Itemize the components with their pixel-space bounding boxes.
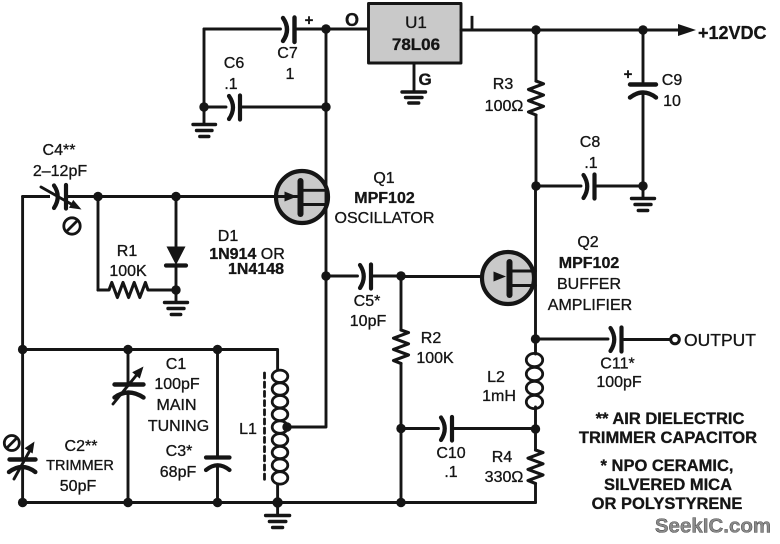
wire: Q1 gate line: [23, 195, 297, 198]
wire: Q2 drain vertical from R3 node: [534, 186, 537, 339]
svg-text:C1: C1: [166, 356, 187, 373]
node: gate line / D1 branch: [171, 192, 180, 201]
svg-text:MPF102: MPF102: [354, 190, 415, 207]
node: bus L1/ground: [272, 497, 282, 507]
svg-text:C11*: C11*: [600, 356, 634, 373]
output terminal: [671, 335, 680, 344]
svg-text:100Ω: 100Ω: [485, 98, 524, 115]
inductor L1: [239, 370, 288, 502]
svg-text:** AIR DIELECTRIC: ** AIR DIELECTRIC: [596, 410, 745, 428]
svg-text:R3: R3: [493, 76, 514, 93]
node: bus left: [18, 498, 27, 507]
svg-text:50pF: 50pF: [60, 478, 97, 495]
node: tank bus left: [18, 345, 27, 354]
capacitor C3: [160, 350, 230, 503]
node: tank bus C1: [123, 345, 132, 354]
svg-text:G: G: [419, 70, 432, 89]
node: C6 right on main vertical: [321, 102, 330, 111]
node: bus R2: [396, 498, 405, 507]
resistor R1: [98, 197, 176, 298]
svg-text:100pF: 100pF: [154, 376, 200, 393]
capacitor C9: [624, 30, 683, 186]
node: C9 top: [638, 25, 647, 34]
screw adjust symbol for C2: [4, 436, 19, 451]
svg-text:1: 1: [286, 66, 295, 83]
svg-text:SILVERED MICA: SILVERED MICA: [604, 476, 732, 494]
wire: output line: [536, 338, 609, 341]
svg-text:C8: C8: [580, 134, 601, 151]
capacitor C8: [580, 134, 601, 199]
svg-text:Q1: Q1: [373, 170, 394, 187]
svg-text:SeekIC.com: SeekIC.com: [655, 515, 771, 538]
svg-text:78L06: 78L06: [392, 35, 440, 54]
svg-text:C5*: C5*: [354, 293, 381, 310]
svg-text:68pF: 68pF: [160, 464, 197, 481]
node: tank bus C3: [213, 345, 222, 354]
node: bus C3: [213, 498, 222, 507]
capacitor C7: [277, 12, 313, 83]
svg-text:R4: R4: [492, 449, 513, 466]
pin G stub: [413, 63, 416, 91]
svg-text:D1: D1: [218, 228, 239, 245]
svg-text:C9: C9: [662, 72, 683, 89]
wire: C6 right to main vertical: [243, 106, 327, 109]
node: C6 left: [199, 102, 208, 111]
svg-text:100K: 100K: [109, 263, 147, 280]
capacitor C10: [401, 417, 536, 481]
node: Q1 source / C5 junction: [321, 271, 330, 280]
svg-text:10pF: 10pF: [350, 313, 387, 330]
wire: C7 to U1 input: [297, 28, 368, 31]
wire: C11 to output terminal: [624, 338, 670, 341]
capacitor C11: [596, 328, 642, 392]
node: C7/main vertical junction: [321, 24, 330, 33]
svg-text:330Ω: 330Ω: [485, 469, 524, 486]
wire: Q1 source down to L1 tap: [287, 276, 326, 427]
svg-text:2–12pF: 2–12pF: [33, 163, 87, 180]
svg-text:.1: .1: [224, 76, 237, 93]
svg-text:TRIMMER CAPACITOR: TRIMMER CAPACITOR: [579, 429, 757, 447]
node: C5 right / R2 top: [396, 271, 405, 280]
node: R2 / C10 left junction: [396, 424, 405, 433]
node: R3 bottom / C8 left: [531, 181, 540, 190]
svg-text:+12VDC: +12VDC: [698, 23, 767, 43]
wire: C8 right: [597, 185, 643, 188]
ground under C6 left node: [193, 107, 216, 137]
svg-text:R1: R1: [117, 243, 138, 260]
wire: main vertical from top rail through Q1 to C5: [325, 29, 328, 276]
L1 core dashed line: [263, 373, 266, 483]
node: R1/D1 bottom junction: [171, 285, 180, 294]
svg-text:+: +: [624, 66, 633, 83]
wire: tank top bus: [23, 350, 278, 371]
svg-text:10: 10: [663, 93, 681, 110]
wire: U1 output to +12VDC: [461, 29, 682, 32]
svg-text:1N4148: 1N4148: [228, 261, 284, 278]
ground under U1 G pin: [402, 92, 426, 103]
svg-text:C6: C6: [224, 55, 245, 72]
svg-text:MAIN: MAIN: [157, 397, 197, 414]
regulator U1 78L06: [369, 4, 462, 64]
node: bus C1: [123, 498, 132, 507]
svg-text:1mH: 1mH: [482, 388, 516, 405]
wire: top-left horizontal (C6/C7 top rail): [204, 28, 281, 31]
svg-text:C7: C7: [277, 45, 298, 62]
ground under R1/D1: [165, 290, 188, 315]
node: L2 bottom / C10 right: [531, 424, 540, 433]
svg-text:Q2: Q2: [577, 234, 598, 251]
svg-text:O: O: [345, 10, 359, 30]
svg-text:TRIMMER: TRIMMER: [46, 458, 114, 474]
svg-text:TUNING: TUNING: [148, 418, 209, 435]
svg-text:C3*: C3*: [166, 443, 193, 460]
capacitor C5: [326, 265, 401, 331]
capacitor C6: [224, 55, 245, 120]
transistor Q1 MPF102 (JFET): [276, 171, 328, 223]
wire: left vertical branch (C2): [21, 197, 24, 459]
svg-text:+: +: [305, 12, 314, 29]
svg-text:BUFFER: BUFFER: [557, 276, 621, 293]
wire: C6 left stub: [204, 106, 226, 109]
screw adjust symbol for C4: [64, 218, 80, 234]
wire: R2 branch to bottom bus: [400, 429, 403, 503]
wire: Q2 gate line: [401, 275, 506, 278]
node: C9 bottom / C8 right: [638, 181, 647, 190]
arrowhead +12VDC: [678, 24, 696, 36]
capacitor C2 (trimmer, variable): [9, 438, 114, 503]
svg-text:100pF: 100pF: [596, 374, 642, 391]
node: gate line / R1 branch: [93, 192, 102, 201]
resistor R4: [485, 429, 543, 503]
transistor Q2 MPF102 (JFET): [482, 252, 536, 304]
svg-text:MPF102: MPF102: [559, 255, 620, 272]
svg-text:100K: 100K: [416, 350, 454, 367]
capacitor C1 (main tuning, variable): [113, 350, 209, 503]
svg-text:.1: .1: [444, 464, 457, 481]
resistor R3: [485, 30, 544, 186]
svg-text:L1: L1: [239, 421, 257, 438]
inductor L2: [482, 339, 543, 429]
wire: left vertical C6 branch: [203, 29, 206, 107]
resistor R2: [394, 276, 455, 429]
svg-text:OR POLYSTYRENE: OR POLYSTYRENE: [592, 495, 743, 513]
ground under L1 / bottom bus: [266, 503, 290, 528]
svg-text:C10: C10: [436, 445, 465, 462]
node: L1 tap: [282, 422, 291, 431]
svg-text:L2: L2: [487, 369, 505, 386]
svg-text:OUTPUT: OUTPUT: [684, 330, 756, 350]
svg-text:C4**: C4**: [43, 142, 76, 159]
svg-text:AMPLIFIER: AMPLIFIER: [548, 297, 632, 314]
wire: C8 left: [536, 185, 581, 188]
svg-text:C2**: C2**: [65, 438, 98, 455]
capacitor C4 (air trimmer): [33, 142, 87, 210]
svg-text:OSCILLATOR: OSCILLATOR: [335, 210, 435, 227]
node: R3 top: [531, 25, 540, 34]
svg-text:R2: R2: [421, 330, 442, 347]
node: Q2 source / output junction: [531, 334, 540, 343]
svg-text:U1: U1: [405, 13, 427, 32]
ground under C8/C9 junction: [632, 186, 655, 211]
svg-text:.1: .1: [584, 155, 597, 172]
svg-text:* NPO CERAMIC,: * NPO CERAMIC,: [601, 457, 734, 475]
wire: bottom bus: [23, 501, 536, 504]
diode D1: [166, 197, 285, 291]
